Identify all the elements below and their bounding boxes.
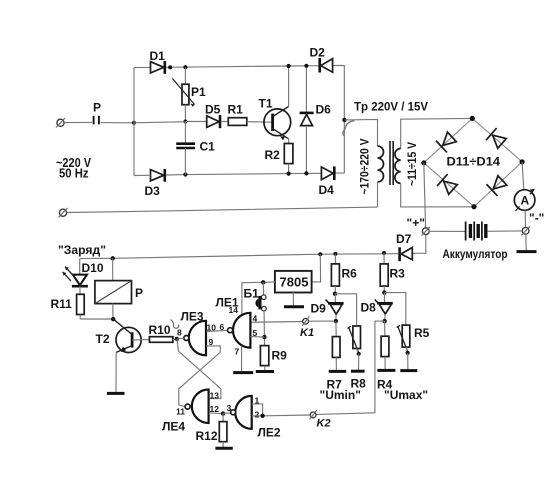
svg-text:P1: P1 (191, 85, 206, 99)
contact K1 (250, 316, 333, 339)
node rail 7805 (318, 252, 322, 256)
svg-text:R5: R5 (414, 326, 430, 340)
svg-text:11: 11 (176, 407, 185, 417)
terminal mains upper (56, 118, 65, 128)
terminal plus (407, 216, 431, 236)
terminal minus (521, 211, 544, 235)
svg-text:14: 14 (229, 305, 239, 315)
svg-text:6: 6 (220, 322, 225, 332)
ground battery minus (525, 234, 527, 250)
wire X feedback pin9 to pin11 (179, 346, 220, 407)
svg-text:R11: R11 (51, 297, 73, 311)
svg-text:"Заряд": "Заряд" (58, 243, 106, 257)
wire 7805 input riser (312, 254, 321, 282)
node T2 collector (111, 317, 115, 321)
svg-text:ЛЕ2: ЛЕ2 (258, 426, 281, 440)
svg-text:R1: R1 (228, 103, 244, 117)
zener D9 (311, 294, 344, 321)
node bridge right (520, 159, 525, 164)
svg-text:~11÷15 V: ~11÷15 V (405, 142, 419, 186)
node R6-D9 (333, 292, 337, 296)
resistor R6 (331, 254, 357, 294)
svg-text:D2: D2 (310, 46, 326, 60)
regulator 7805 (275, 271, 312, 293)
potentiometer P1 (172, 67, 206, 121)
gate ЛЕ1 (216, 296, 258, 357)
node bridge top (470, 116, 475, 121)
wire T1 collector up (288, 66, 290, 107)
diode D14 bottom-right arm (487, 175, 508, 196)
svg-text:D7: D7 (396, 232, 412, 246)
wire to Б1 top terminal (262, 282, 264, 295)
wire ЛЕ2 pin1 loop (252, 404, 263, 416)
wire node to ЛЕ2 bubble (223, 412, 230, 415)
ground ЛЕ1 pin7 (233, 346, 253, 373)
svg-text:D4: D4 (319, 183, 335, 197)
svg-text:"-": "-" (529, 211, 544, 225)
wire node to mains node (134, 122, 185, 123)
svg-text:7: 7 (235, 347, 240, 357)
terminal mains lower (59, 208, 68, 218)
svg-text:"+": "+" (407, 216, 425, 230)
svg-text:ЛЕ4: ЛЕ4 (162, 420, 185, 434)
transformer primary winding (378, 146, 384, 182)
node ЛЕ2 output (260, 414, 264, 418)
svg-text:"Umin": "Umin" (320, 388, 361, 402)
relay P coil (95, 258, 143, 319)
squiggle mark near ЛЕ3 (171, 320, 179, 329)
wire ЛЕ4 pin12 to node (209, 412, 223, 415)
svg-text:Tp 220V / 15V: Tp 220V / 15V (354, 100, 428, 114)
diode D11 top-left arm (436, 131, 457, 152)
diode D12 top-right arm (486, 128, 507, 149)
svg-text:D9: D9 (311, 302, 327, 316)
resistor R1 (221, 103, 272, 126)
svg-text:R9: R9 (272, 349, 288, 363)
wire ЛЕ1 pin5 (250, 336, 264, 338)
wire main dc rail (80, 254, 399, 259)
node mains input (132, 121, 136, 125)
node bridge bottom (471, 204, 476, 209)
diode D2 (310, 46, 333, 73)
svg-text:D8: D8 (361, 301, 377, 315)
wire squiggle mark (343, 121, 355, 136)
svg-text:Аккумулятор: Аккумулятор (443, 247, 508, 261)
wire bridge left down to plus terminal (424, 163, 426, 228)
svg-text:7805: 7805 (280, 275, 309, 290)
node C1 bottom (183, 172, 187, 176)
resistor R11 (51, 286, 114, 319)
ground 7805 (284, 293, 304, 307)
svg-text:8: 8 (177, 328, 182, 338)
transformer secondary winding (395, 149, 401, 184)
resistor R7 (327, 321, 347, 391)
potentiometer R5 (397, 325, 430, 371)
wire Б1 to R9 (263, 311, 265, 346)
wire primary bottom (377, 182, 379, 207)
wire bottom rail (134, 174, 151, 176)
node primary tap (342, 118, 346, 122)
svg-text:"Umax": "Umax" (384, 388, 428, 402)
ammeter A (514, 189, 535, 211)
svg-text:T1: T1 (259, 97, 273, 111)
gate ЛЕ4 (162, 390, 219, 434)
led D10 (63, 259, 104, 287)
transformer core (389, 141, 391, 185)
node D9-R7-K1 (334, 319, 338, 323)
svg-text:R12: R12 (196, 429, 218, 443)
node supply Б1 (261, 280, 265, 284)
svg-text:P: P (93, 101, 101, 115)
svg-text:R3: R3 (390, 267, 406, 281)
node P1 top (183, 65, 187, 69)
transistor T1 (259, 97, 291, 141)
wire top rail (134, 66, 151, 68)
svg-text:A: A (521, 194, 530, 208)
svg-text:P: P (135, 286, 143, 300)
capacitor C1 (176, 122, 215, 175)
wire K2 riser (316, 321, 384, 414)
wire primary top (345, 119, 378, 146)
svg-text:50 Hz: 50 Hz (59, 165, 89, 180)
wire bridge diamond (424, 118, 522, 206)
wire pin8 to bubble (177, 337, 184, 340)
svg-text:4: 4 (253, 314, 258, 324)
gate ЛЕ2 (227, 396, 281, 440)
transistor T2 (96, 319, 142, 352)
wire R6-D9 node to R8 (335, 294, 357, 326)
resistor R10 (132, 323, 177, 342)
diode D5 (205, 103, 221, 129)
wire R3-D8 node to R5 (384, 293, 405, 326)
potentiometer R8 (348, 326, 367, 391)
wire ammeter to minus terminal (524, 210, 526, 227)
diode D13 bottom-left arm (437, 174, 458, 195)
svg-text:D10: D10 (82, 261, 104, 275)
node D5 / P1 / C1 (183, 120, 187, 124)
resistor R3 (380, 253, 405, 293)
resistor R2 (265, 139, 293, 174)
wire left vertical of block (133, 68, 135, 176)
svg-text:3: 3 (227, 403, 232, 413)
node rail R3 (382, 251, 386, 255)
wire 7805 output to gates supply (242, 282, 275, 315)
node pin5 tap (262, 335, 266, 339)
svg-text:R2: R2 (265, 148, 281, 162)
node pin8 (175, 337, 179, 341)
node R3-D8 (382, 290, 386, 294)
svg-text:K1: K1 (300, 327, 314, 339)
wire switch to node (101, 122, 135, 124)
wire mains lower to transformer primary bottom (67, 207, 378, 212)
node Заряд rail (111, 256, 115, 260)
node D8-R4-K2 (382, 319, 386, 323)
diode D1 (150, 49, 166, 74)
wire ЛЕ2 pin2 (252, 415, 263, 417)
node bridge left (421, 160, 426, 165)
resistor R12 (196, 414, 233, 449)
wire pin10 to ЛЕ1 (207, 330, 228, 331)
node rail R6 (333, 252, 337, 256)
svg-text:D11÷D14: D11÷D14 (447, 155, 501, 169)
svg-text:R6: R6 (342, 267, 358, 281)
diode D4 (319, 166, 335, 197)
battery Аккумулятор (429, 222, 522, 262)
wire mains upper to switch P (64, 121, 92, 123)
diode D6 (300, 66, 332, 174)
zener D8 (361, 293, 393, 322)
svg-text:D1: D1 (150, 49, 166, 63)
svg-text:C1: C1 (200, 140, 216, 154)
wire secondary top (401, 118, 472, 148)
svg-text:~170÷220 V: ~170÷220 V (358, 139, 372, 195)
node D1 cathode (168, 65, 172, 69)
wire secondary bottom (401, 183, 474, 207)
svg-text:R10: R10 (149, 323, 171, 337)
wire bridge right to ammeter (522, 162, 524, 190)
svg-text:ЛЕ3: ЛЕ3 (181, 310, 204, 324)
resistor R4 (377, 321, 395, 391)
diode D3 (145, 169, 165, 198)
gate ЛЕ3 (177, 310, 216, 356)
svg-text:2: 2 (255, 410, 260, 420)
wire plus terminal down to D7 (413, 235, 426, 254)
contact K2 (265, 410, 331, 430)
svg-text:D6: D6 (316, 103, 332, 117)
svg-text:D3: D3 (145, 184, 161, 198)
switch P (93, 101, 101, 125)
resistor R9 (256, 346, 287, 372)
svg-text:Б1: Б1 (244, 287, 260, 301)
svg-text:13: 13 (210, 391, 220, 401)
svg-text:D5: D5 (205, 103, 221, 117)
svg-text:K2: K2 (317, 418, 331, 430)
wire node to D5 (185, 121, 206, 123)
buzzer Б1 (244, 287, 267, 312)
svg-text:T2: T2 (96, 332, 110, 346)
wire X feedback pin8 to pin13 (177, 339, 221, 399)
diode D7 (396, 232, 412, 261)
node pin12-R12-pin3 (221, 411, 225, 415)
ground T2 emitter (107, 352, 125, 393)
